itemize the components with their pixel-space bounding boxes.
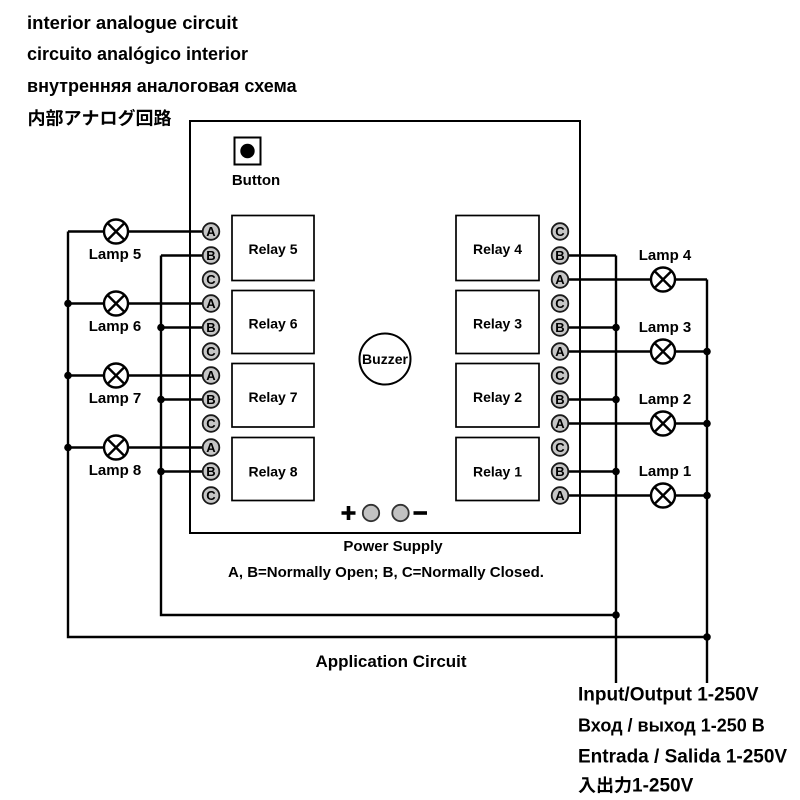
svg-text:Relay 5: Relay 5	[248, 241, 297, 257]
junction dots right B bus	[612, 324, 620, 619]
svg-text:B: B	[555, 320, 564, 335]
wire: terminal A relay4 through lamp4	[568, 278, 707, 280]
wire: terminal A relay3 through lamp3	[568, 350, 707, 352]
svg-text:Entrada / Salida 1-250V: Entrada / Salida 1-250V	[578, 747, 787, 768]
svg-text:A: A	[206, 440, 216, 455]
lamp L1	[651, 484, 675, 508]
svg-text:A, B=Normally Open; B, C=Norma: A, B=Normally Open; B, C=Normally Closed…	[228, 564, 544, 581]
terminal A relay3 (right)	[552, 343, 569, 360]
terminal B relay8 (left)	[203, 463, 220, 480]
svg-text:Input/Output 1-250V: Input/Output 1-250V	[578, 685, 759, 706]
title line 4 (Japanese) 内部アナログ回路	[29, 109, 171, 126]
power supply minus symbol	[414, 511, 428, 515]
IO label line 4 (Japanese) 入出力1-250V	[579, 776, 694, 797]
svg-text:Lamp 1: Lamp 1	[639, 463, 692, 480]
lamp L3	[651, 340, 675, 364]
terminal B relay2 (right)	[552, 391, 569, 408]
svg-text:Relay 8: Relay 8	[248, 464, 297, 480]
wire: terminal B relay6 to B bus	[161, 326, 203, 328]
wire: terminal A relay1 through lamp1	[568, 494, 707, 496]
svg-text:B: B	[555, 392, 564, 407]
svg-text:Relay 7: Relay 7	[248, 389, 297, 405]
svg-text:C: C	[206, 344, 216, 359]
svg-text:C: C	[555, 368, 565, 383]
svg-text:C: C	[206, 272, 216, 287]
svg-text:B: B	[206, 392, 215, 407]
svg-text:A: A	[206, 224, 216, 239]
relay box Relay 5	[232, 216, 314, 281]
terminal B relay6 (left)	[203, 319, 220, 336]
relay box Relay 6	[232, 291, 314, 354]
wire: lamp6 to terminal A	[68, 302, 203, 304]
svg-text:B: B	[206, 464, 215, 479]
svg-text:Relay 1: Relay 1	[473, 464, 522, 480]
wire: left B bus	[161, 256, 616, 616]
relay box Relay 8	[232, 438, 314, 501]
terminal A relay7 (left)	[203, 367, 220, 384]
terminal B relay7 (left)	[203, 391, 220, 408]
terminal C relay1 (right)	[552, 439, 569, 456]
buzzer BZ1	[360, 334, 411, 385]
power supply negative terminal	[392, 505, 408, 521]
terminal A relay1 (right)	[552, 487, 569, 504]
wire: terminal B relay4 to right B bus	[568, 254, 616, 256]
terminal A relay6 (left)	[203, 295, 220, 312]
terminal C relay5 (left)	[203, 271, 220, 288]
power supply plus symbol	[342, 506, 356, 520]
wire: terminal B relay8 to B bus	[161, 470, 203, 472]
lamp L4	[651, 268, 675, 292]
relay box Relay 2	[456, 364, 539, 428]
junction dots right outer bus	[703, 348, 711, 641]
svg-text:A: A	[555, 416, 565, 431]
terminal C relay7 (left)	[203, 415, 220, 432]
svg-text:Relay 2: Relay 2	[473, 389, 522, 405]
svg-text:A: A	[555, 272, 565, 287]
svg-text:A: A	[206, 296, 216, 311]
board outline	[190, 121, 580, 533]
svg-text:Relay 4: Relay 4	[473, 241, 522, 257]
wire: terminal B relay5 to B bus	[161, 254, 203, 256]
svg-text:A: A	[206, 368, 216, 383]
relay box Relay 7	[232, 364, 314, 428]
svg-text:C: C	[555, 296, 565, 311]
svg-text:A: A	[555, 344, 565, 359]
wire: left outer bus (lamp common)	[68, 232, 707, 638]
svg-text:Вход / выход 1-250 В: Вход / выход 1-250 В	[578, 716, 765, 736]
terminal C relay2 (right)	[552, 367, 569, 384]
terminal B relay3 (right)	[552, 319, 569, 336]
wire: terminal A relay2 through lamp2	[568, 422, 707, 424]
svg-text:Application Circuit: Application Circuit	[315, 652, 466, 671]
svg-text:B: B	[555, 464, 564, 479]
svg-text:C: C	[555, 224, 565, 239]
svg-text:1-250V: 1-250V	[632, 776, 694, 797]
lamp L7	[104, 364, 128, 388]
lamp L5	[104, 220, 128, 244]
wire: lamp7 to terminal A	[68, 374, 203, 376]
svg-text:circuito analógico interior: circuito analógico interior	[27, 44, 248, 64]
wire: right outer bus (lamp common)	[706, 280, 708, 684]
svg-text:C: C	[555, 440, 565, 455]
wire: lamp5 to terminal A	[68, 230, 203, 232]
terminal C relay6 (left)	[203, 343, 220, 360]
relay box Relay 1	[456, 438, 539, 501]
svg-text:A: A	[555, 488, 565, 503]
terminal C relay3 (right)	[552, 295, 569, 312]
terminal B relay1 (right)	[552, 463, 569, 480]
terminal C relay4 (right)	[552, 223, 569, 240]
svg-text:Lamp 8: Lamp 8	[89, 462, 142, 479]
junction dots left B bus	[157, 324, 165, 476]
svg-text:внутренняя аналоговая схема: внутренняя аналоговая схема	[27, 76, 298, 96]
svg-text:C: C	[206, 416, 216, 431]
svg-text:C: C	[206, 488, 216, 503]
svg-text:Lamp 6: Lamp 6	[89, 318, 142, 335]
svg-text:B: B	[206, 248, 215, 263]
svg-text:interior analogue circuit: interior analogue circuit	[27, 12, 238, 33]
wire: terminal B relay1 to right B bus	[568, 470, 616, 472]
svg-text:B: B	[555, 248, 564, 263]
svg-text:Lamp 2: Lamp 2	[639, 391, 692, 408]
svg-text:Buzzer: Buzzer	[362, 351, 408, 367]
wire: terminal B relay3 to right B bus	[568, 326, 616, 328]
terminal B relay4 (right)	[552, 247, 569, 264]
svg-text:B: B	[206, 320, 215, 335]
svg-text:Lamp 7: Lamp 7	[89, 390, 142, 407]
svg-text:Relay 6: Relay 6	[248, 316, 297, 332]
svg-text:Button: Button	[232, 172, 280, 189]
power supply positive terminal	[363, 505, 379, 521]
svg-text:Power Supply: Power Supply	[343, 538, 443, 555]
wire: right B bus	[615, 256, 617, 684]
svg-text:Lamp 5: Lamp 5	[89, 246, 142, 263]
relay box Relay 4	[456, 216, 539, 281]
terminal A relay2 (right)	[552, 415, 569, 432]
wire: lamp8 to terminal A	[68, 446, 203, 448]
svg-text:Relay 3: Relay 3	[473, 316, 522, 332]
terminal C relay8 (left)	[203, 487, 220, 504]
junction dots left outer bus	[64, 300, 72, 452]
svg-text:Lamp 3: Lamp 3	[639, 319, 692, 336]
lamp L8	[104, 436, 128, 460]
terminal A relay5 (left)	[203, 223, 220, 240]
terminal A relay8 (left)	[203, 439, 220, 456]
wire: terminal B relay7 to B bus	[161, 398, 203, 400]
svg-text:Lamp 4: Lamp 4	[639, 247, 692, 264]
relay box Relay 3	[456, 291, 539, 354]
lamp L6	[104, 292, 128, 316]
terminal A relay4 (right)	[552, 271, 569, 288]
terminal B relay5 (left)	[203, 247, 220, 264]
button S1	[235, 138, 261, 165]
wire: terminal B relay2 to right B bus	[568, 398, 616, 400]
lamp L2	[651, 412, 675, 436]
